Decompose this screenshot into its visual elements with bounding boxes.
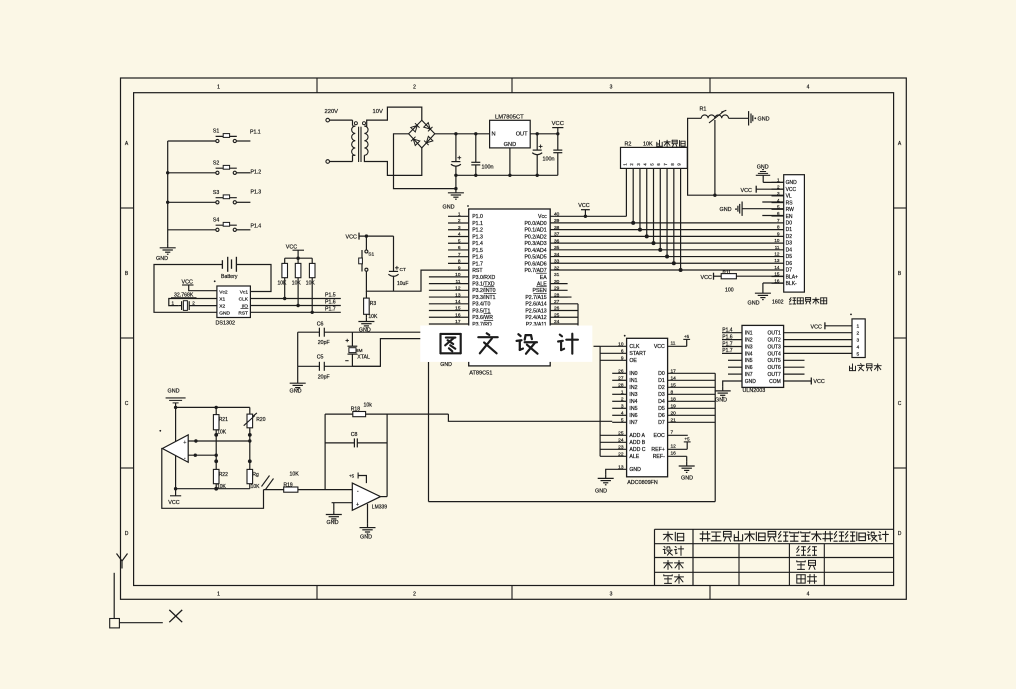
svg-text:D1: D1	[658, 378, 665, 384]
svg-text:GND: GND	[715, 398, 727, 404]
wire XTAL2 row	[352, 331, 470, 333]
svg-text:P0.6/AD6: P0.6/AD6	[524, 261, 546, 267]
opamp output feedback loop	[162, 449, 264, 509]
chip U5 ULN2003	[742, 325, 784, 387]
wire battery right to Vcc1	[236, 265, 271, 292]
svg-text:3: 3	[610, 592, 613, 598]
svg-text:IN2: IN2	[745, 338, 753, 344]
svg-text:C: C	[125, 401, 129, 407]
connector J1 stepper motor	[852, 319, 865, 358]
resistor R3 10K	[365, 291, 367, 298]
svg-text:D: D	[898, 531, 902, 537]
svg-text:P1.7: P1.7	[472, 261, 483, 267]
switch S4	[216, 228, 219, 231]
svg-text:P1.0: P1.0	[472, 214, 483, 220]
svg-text:IN4: IN4	[629, 399, 637, 405]
chip U4 ADC0809FN	[627, 338, 668, 477]
svg-text:CLK: CLK	[239, 297, 249, 303]
pack pin 1 wire to VCC	[625, 168, 627, 216]
svg-text:D4: D4	[786, 247, 793, 253]
svg-text:RST: RST	[238, 311, 248, 317]
svg-text:X2: X2	[219, 304, 225, 310]
resistor R20 photoresistor	[249, 407, 251, 414]
svg-text:1: 1	[217, 85, 220, 91]
resistor R22 10K	[213, 469, 219, 483]
title block label 学号	[797, 561, 805, 563]
AC input terminal top	[326, 118, 330, 122]
opamp wire - input	[188, 454, 216, 456]
svg-text:IN5: IN5	[745, 358, 753, 364]
watermark text 图文设计	[441, 333, 461, 335]
svg-text:26: 26	[618, 368, 624, 374]
svg-text:24: 24	[618, 437, 624, 443]
ULN GND wire	[723, 381, 742, 387]
svg-text:-: -	[184, 455, 186, 461]
resistor R5 10K	[284, 258, 286, 263]
wire S1 row	[168, 140, 216, 142]
svg-text:CLK: CLK	[629, 344, 640, 350]
svg-text:ADD B: ADD B	[629, 440, 645, 446]
voltage regulator U2 LM7805CT	[490, 120, 531, 148]
svg-text:P0.5/AD5: P0.5/AD5	[524, 255, 546, 261]
wire DS1302 CLK to P1.5	[250, 298, 340, 300]
wire pot wiper to VL	[714, 120, 716, 195]
svg-text:10: 10	[618, 341, 624, 347]
svg-text:3: 3	[610, 85, 613, 91]
wire bridge negative to ground rail	[394, 134, 456, 189]
svg-text:13: 13	[774, 258, 780, 263]
svg-text:D0: D0	[786, 221, 793, 227]
svg-text:IN2: IN2	[629, 385, 637, 391]
ground ADC	[605, 474, 607, 478]
svg-text:VL: VL	[786, 194, 792, 200]
svg-text:Vc1: Vc1	[240, 289, 249, 295]
ground LCD pin16	[763, 282, 784, 284]
wire S4 row	[168, 229, 216, 231]
resistor R18 10k	[325, 413, 353, 415]
svg-text:DS1302: DS1302	[216, 321, 235, 327]
asterisk marker opamp	[159, 430, 161, 432]
svg-text:VCC: VCC	[578, 203, 589, 209]
svg-text:4: 4	[777, 198, 780, 203]
svg-text:Rg: Rg	[252, 472, 259, 478]
svg-text:15: 15	[455, 306, 461, 312]
MCU pin 28 stub	[550, 296, 571, 298]
svg-text:AT89C51: AT89C51	[469, 370, 492, 376]
battery B1	[221, 260, 223, 269]
svg-text:2: 2	[192, 301, 195, 306]
ground pot right	[729, 117, 749, 119]
ULN outputs to stepper	[784, 332, 852, 334]
svg-text:VCC: VCC	[168, 500, 179, 506]
title block label 审核	[664, 575, 672, 577]
svg-text:18: 18	[671, 396, 677, 402]
stepper label 步进电机	[849, 370, 855, 372]
svg-text:P1.3: P1.3	[472, 234, 483, 240]
svg-text:P0.1/AD1: P0.1/AD1	[524, 228, 546, 234]
svg-text:LM339: LM339	[372, 505, 388, 511]
svg-text:D5: D5	[786, 254, 793, 260]
UCS origin box	[113, 573, 115, 619]
svg-text:10K: 10K	[251, 484, 261, 490]
svg-text:IN1: IN1	[745, 331, 753, 337]
svg-text:P3.0/RXD: P3.0/RXD	[472, 275, 495, 281]
svg-text:P1.7: P1.7	[722, 341, 733, 347]
junction dot S2 tap	[166, 171, 169, 174]
chip U3 DS1302	[217, 286, 251, 318]
svg-text:ULN2003: ULN2003	[743, 388, 766, 394]
svg-text:4: 4	[807, 592, 810, 598]
opamp U6 comparator triangle	[162, 435, 188, 462]
sensor top rail	[176, 406, 250, 408]
svg-text:P1.2: P1.2	[251, 170, 262, 176]
ADC REF+ wire to +5	[668, 448, 688, 450]
svg-text:3: 3	[857, 338, 860, 344]
svg-text:GND: GND	[440, 362, 452, 368]
svg-text:D: D	[125, 531, 129, 537]
svg-text:P1.3: P1.3	[251, 190, 262, 196]
svg-text:OUT7: OUT7	[767, 372, 781, 378]
svg-text:P1.5: P1.5	[325, 293, 336, 299]
MCU pin40 VCC wire	[550, 215, 626, 217]
svg-text:REF+: REF+	[651, 447, 664, 453]
MCU left pin stubs 1-8	[448, 215, 469, 217]
svg-text:D6: D6	[658, 413, 665, 419]
svg-text:2: 2	[621, 396, 624, 402]
svg-text:11: 11	[775, 245, 780, 250]
svg-text:2: 2	[458, 218, 461, 224]
svg-text:10K: 10K	[278, 281, 288, 287]
svg-text:VCC: VCC	[786, 187, 797, 193]
svg-text:P1.6: P1.6	[325, 300, 336, 306]
svg-text:IN3: IN3	[629, 392, 637, 398]
svg-text:EOC: EOC	[654, 433, 665, 439]
title block label 班级	[797, 546, 799, 549]
svg-text:VCC: VCC	[741, 188, 752, 194]
svg-text:BLA+: BLA+	[786, 274, 798, 280]
svg-text:COM: COM	[769, 379, 781, 385]
wire S2 row	[168, 172, 216, 174]
bus loop wire bottom	[429, 501, 716, 503]
svg-text:VCC: VCC	[654, 344, 665, 350]
svg-text:S1: S1	[368, 251, 374, 257]
svg-text:1: 1	[172, 301, 175, 306]
ULN output stubs 5-7	[784, 359, 805, 361]
svg-text:D7: D7	[786, 268, 793, 274]
chip U1 AT89C51	[469, 209, 551, 366]
svg-text:6: 6	[777, 211, 780, 216]
svg-text:+5: +5	[684, 334, 690, 339]
inner border frame	[134, 93, 894, 586]
asterisk marker stepper	[850, 314, 852, 316]
svg-text:IN5: IN5	[629, 406, 637, 412]
wire XTAL1 jog	[352, 339, 470, 367]
svg-text:9: 9	[621, 355, 624, 361]
svg-text:P2.5/A13: P2.5/A13	[525, 308, 546, 314]
svg-text:R21: R21	[219, 417, 228, 423]
svg-text:ADD A: ADD A	[629, 433, 645, 439]
svg-text:8: 8	[777, 225, 780, 230]
svg-text:100n: 100n	[543, 157, 555, 163]
watermark box	[420, 326, 592, 362]
svg-text:P3.3/INT1: P3.3/INT1	[472, 295, 495, 301]
svg-text:R11: R11	[723, 269, 732, 275]
X axis marker glyph	[169, 610, 182, 622]
svg-text:8M: 8M	[356, 348, 363, 354]
svg-text:1: 1	[458, 212, 461, 218]
svg-text:1: 1	[621, 389, 624, 395]
AC input terminal bottom	[326, 160, 330, 164]
svg-text:10: 10	[455, 272, 461, 278]
wire rail to ground symbol	[455, 175, 457, 188]
wire reset switch to RST node	[366, 270, 448, 291]
svg-text:GND: GND	[156, 256, 168, 262]
svg-text:P1.2: P1.2	[472, 228, 483, 234]
switch S3	[216, 201, 219, 204]
title block label 校核	[664, 562, 673, 564]
svg-text:IN6: IN6	[745, 365, 753, 371]
svg-text:P2.4/A12: P2.4/A12	[525, 315, 546, 321]
svg-text:D6: D6	[786, 261, 793, 267]
svg-text:GND: GND	[720, 207, 732, 213]
zone ticks top/bottom	[316, 78, 318, 93]
title text 基于单片机的智能窗帘控制系统的设计	[700, 533, 710, 535]
switch S1	[216, 139, 219, 142]
title block label 设计	[664, 546, 665, 549]
svg-text:100: 100	[725, 288, 734, 294]
svg-text:11: 11	[671, 340, 676, 346]
svg-text:20: 20	[671, 410, 677, 416]
svg-text:Vcc: Vcc	[538, 214, 547, 220]
svg-text:-: -	[357, 488, 359, 494]
svg-text:D4: D4	[658, 399, 665, 405]
svg-text:OUT4: OUT4	[767, 351, 781, 357]
svg-text:8: 8	[458, 259, 461, 265]
ground crystal caps	[297, 332, 299, 366]
svg-text:16: 16	[455, 312, 461, 318]
svg-text:CT: CT	[400, 267, 406, 273]
svg-text:XTAL: XTAL	[357, 354, 370, 360]
svg-text:P1.5: P1.5	[472, 248, 483, 254]
resistor network R2 10K pull-up	[621, 147, 688, 168]
wiper slashes	[262, 476, 270, 487]
svg-text:C5: C5	[317, 354, 324, 360]
svg-text:12: 12	[774, 252, 780, 257]
svg-text:22: 22	[618, 451, 624, 457]
ADC control bus vertical	[599, 346, 601, 456]
svg-text:+5: +5	[349, 474, 355, 479]
svg-text:ADD C: ADD C	[629, 447, 645, 453]
svg-text:5: 5	[857, 351, 860, 357]
svg-text:3: 3	[621, 403, 624, 409]
ADC data bus vertical	[714, 373, 716, 501]
+5 power flag LM339	[358, 476, 366, 484]
LCD pin4 RS stub	[762, 201, 783, 203]
asterisk marker MCU	[467, 205, 469, 207]
svg-text:EA: EA	[540, 275, 547, 281]
svg-text:IN6: IN6	[629, 413, 637, 419]
svg-text:RS: RS	[786, 200, 794, 206]
svg-text:OUT: OUT	[516, 132, 528, 138]
LCD pin6 EN stub	[762, 215, 783, 217]
wire pot left to VL	[688, 118, 784, 195]
svg-text:GND: GND	[360, 534, 372, 540]
crystal Y1 XTAL	[351, 332, 353, 346]
ground LM339 V-	[367, 504, 369, 524]
svg-text:GND: GND	[168, 389, 180, 395]
wire bridge positive to regulator input	[435, 133, 490, 135]
svg-text:10K: 10K	[368, 314, 378, 320]
svg-text:7: 7	[777, 218, 780, 223]
ADC data bus D0-D7 wires	[668, 372, 716, 374]
svg-text:OUT5: OUT5	[767, 358, 781, 364]
svg-text:S3: S3	[213, 190, 219, 196]
svg-text:VCC: VCC	[701, 275, 712, 281]
svg-text:5: 5	[458, 238, 461, 244]
svg-text:VCC: VCC	[813, 379, 824, 385]
ground key bank	[167, 244, 169, 248]
svg-text:20pF: 20pF	[318, 340, 330, 346]
svg-text:9: 9	[777, 231, 780, 236]
svg-text:D0: D0	[658, 371, 665, 377]
svg-text:RW: RW	[786, 207, 795, 213]
svg-text:ADC0809FN: ADC0809FN	[627, 480, 658, 486]
svg-text:31: 31	[554, 272, 560, 278]
transformer core	[358, 127, 360, 162]
svg-text:1: 1	[217, 592, 220, 598]
capacitor C3 electrolytic 100n	[536, 134, 538, 150]
Y axis marker on left border	[117, 554, 123, 562]
svg-text:ALE: ALE	[629, 454, 639, 460]
MCU left pin stubs 10-17	[429, 276, 469, 278]
svg-text:21: 21	[671, 417, 677, 423]
svg-text:20pF: 20pF	[318, 374, 330, 380]
svg-text:IN7: IN7	[745, 372, 753, 378]
svg-text:P1.1: P1.1	[472, 221, 483, 227]
svg-text:D5: D5	[658, 406, 665, 412]
svg-text:OUT2: OUT2	[767, 338, 781, 344]
svg-text:13: 13	[455, 292, 461, 298]
svg-text:GND: GND	[443, 205, 455, 211]
svg-text:4: 4	[621, 410, 624, 416]
svg-text:6: 6	[458, 245, 461, 251]
svg-text:4: 4	[807, 85, 810, 91]
svg-text:11: 11	[456, 279, 461, 285]
VCC symbol MCU	[584, 210, 586, 217]
svg-text:D3: D3	[786, 241, 793, 247]
MCU pins 27-24 ladder to ADC bus	[550, 303, 578, 305]
svg-text:P1.6: P1.6	[472, 255, 483, 261]
ULN input stubs 5-7	[728, 359, 742, 361]
svg-text:R22: R22	[219, 472, 228, 478]
P0 data bus wires to LCD	[550, 222, 784, 224]
sensor bottom rail	[176, 488, 250, 490]
svg-text:R18: R18	[351, 406, 360, 412]
svg-text:3: 3	[458, 225, 461, 231]
svg-text:10K: 10K	[306, 281, 316, 287]
svg-text:4: 4	[857, 344, 860, 350]
wire DS1302 RST to P1.7	[250, 311, 340, 313]
svg-text:C6: C6	[317, 321, 324, 327]
resistor R19 10K	[264, 489, 284, 491]
resistor R21 10K	[215, 407, 217, 414]
wire S3 row	[168, 201, 216, 203]
opamp U6 power vertical	[175, 407, 177, 488]
ADC CLK stub from watermark	[594, 345, 601, 347]
resistor R6 10K	[297, 258, 299, 263]
svg-text:D7: D7	[658, 420, 665, 426]
svg-text:14: 14	[671, 375, 677, 381]
svg-text:START: START	[629, 351, 646, 357]
svg-text:4: 4	[458, 232, 461, 238]
svg-text:10uF: 10uF	[397, 281, 408, 287]
svg-text:GND: GND	[327, 520, 339, 526]
svg-text:D2: D2	[786, 234, 793, 240]
svg-text:P0.3/AD3: P0.3/AD3	[524, 241, 546, 247]
svg-text:P3.4/T0: P3.4/T0	[472, 302, 490, 308]
svg-text:OUT6: OUT6	[767, 365, 781, 371]
regulator output wire to VCC	[530, 133, 558, 135]
svg-text:GND: GND	[629, 467, 641, 473]
ground ULN	[722, 387, 724, 391]
svg-text:2: 2	[857, 331, 860, 337]
wire secondary bottom to bridge	[364, 148, 421, 176]
switch bus vertical wire	[167, 141, 169, 244]
asterisk marker	[214, 280, 216, 282]
svg-text:10: 10	[774, 238, 780, 243]
svg-text:R2: R2	[625, 141, 632, 147]
svg-text:12: 12	[671, 443, 677, 449]
junction dot	[454, 132, 457, 135]
opamp U7 LM339 triangle	[352, 483, 380, 510]
svg-text:+: +	[183, 440, 186, 446]
svg-text:VCC: VCC	[182, 279, 193, 285]
svg-text:7: 7	[458, 252, 461, 258]
capacitor CT 10uF electrolytic	[393, 236, 395, 271]
svg-text:R19: R19	[284, 482, 293, 488]
pack pins 2-9 drop wires to P0 bus	[632, 168, 634, 223]
title block table	[655, 528, 894, 530]
svg-text:P1.4: P1.4	[722, 328, 733, 334]
capacitor C2 100n	[474, 132, 477, 135]
svg-text:OUT1: OUT1	[767, 331, 781, 337]
svg-text:C: C	[898, 401, 902, 407]
svg-text:S2: S2	[213, 160, 219, 166]
wire battery left to DS1302 GND	[154, 265, 222, 313]
svg-text:3: 3	[777, 191, 780, 196]
svg-text:1602: 1602	[772, 300, 784, 306]
ground rail under regulator	[456, 174, 558, 176]
svg-text:17: 17	[671, 368, 677, 374]
capacitor C1 electrolytic	[455, 134, 457, 162]
svg-text:12: 12	[455, 286, 461, 292]
svg-text:P2.7/A15: P2.7/A15	[525, 295, 546, 301]
title block label 标题	[663, 533, 672, 535]
capacitor C4 100n	[557, 134, 559, 150]
connector J2 LCD1602	[784, 175, 805, 292]
svg-text:S4: S4	[213, 217, 219, 223]
svg-text:GND: GND	[219, 311, 230, 317]
switch S5 reset	[365, 236, 367, 250]
svg-text:14: 14	[455, 299, 461, 305]
svg-text:10K: 10K	[292, 281, 302, 287]
svg-text:10K: 10K	[217, 429, 227, 435]
svg-text:P0.2/AD2: P0.2/AD2	[524, 234, 546, 240]
svg-text:23: 23	[618, 444, 624, 450]
svg-text:P1.7: P1.7	[325, 306, 336, 312]
svg-text:100n: 100n	[482, 165, 494, 171]
feedback column right	[386, 414, 388, 497]
